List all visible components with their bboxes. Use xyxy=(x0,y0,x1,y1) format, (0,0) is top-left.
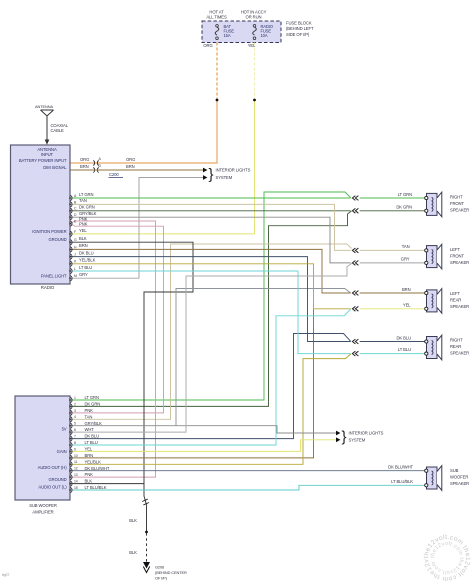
svg-text:DK BLU/WHT: DK BLU/WHT xyxy=(85,466,110,471)
svg-text:14: 14 xyxy=(74,480,78,484)
wire YEL/BLK: radio pin K down to LR- connector, on to left rear speaker - xyxy=(70,264,351,309)
wire YEL/BLK: amp pin 11 riser to RR- connector xyxy=(70,354,351,464)
svg-text:RIGHT: RIGHT xyxy=(450,338,463,343)
right rear speaker xyxy=(427,337,438,359)
junction dot on BLK at G206 drop xyxy=(145,531,148,534)
svg-text:LT BLU: LT BLU xyxy=(79,265,92,270)
radio pin E xyxy=(70,221,72,226)
wire LT BLU: amp pin 8 riser to LR- connector xyxy=(70,309,351,445)
connector LR+ xyxy=(352,290,360,295)
svg-text:YEL/BLK: YEL/BLK xyxy=(85,459,102,464)
amp pin 4 TAN xyxy=(70,417,72,422)
svg-text:WOOFER: WOOFER xyxy=(450,475,468,480)
wire TAN: amp pin 4 riser to LF+ connector, on to left front speaker + xyxy=(70,244,353,419)
sub woofer speaker xyxy=(427,467,438,489)
wire GRY: radio PANEL LIGHT (pin M) up to interior lights system xyxy=(70,178,203,279)
svg-text:3: 3 xyxy=(74,409,76,413)
wire LT BLU: radio pin L down to RR- connector, on to right rear speaker - xyxy=(70,271,351,354)
svg-text:15: 15 xyxy=(74,486,78,490)
svg-text:AUDIO OUT (L): AUDIO OUT (L) xyxy=(38,485,67,490)
svg-text:4: 4 xyxy=(74,415,76,419)
svg-text:INPUT: INPUT xyxy=(41,152,54,157)
svg-text:SPEAKER: SPEAKER xyxy=(450,304,469,309)
svg-text:REAR: REAR xyxy=(450,344,461,349)
svg-text:12: 12 xyxy=(74,467,78,471)
svg-text:TAN: TAN xyxy=(402,244,410,249)
svg-text:BRN: BRN xyxy=(126,164,135,169)
svg-text:DK BLU: DK BLU xyxy=(396,335,411,340)
svg-text:SPEAKER: SPEAKER xyxy=(450,481,469,486)
amp pin 3 PNK xyxy=(70,410,72,415)
svg-text:G206: G206 xyxy=(155,565,164,570)
wire BRN: radio DIM SIGNAL to interior lights system xyxy=(70,169,203,171)
svg-text:13: 13 xyxy=(74,473,78,477)
svg-text:ANTENNA: ANTENNA xyxy=(35,104,53,109)
svg-text:ORG: ORG xyxy=(203,43,212,48)
svg-text:TAN: TAN xyxy=(79,198,87,203)
svg-text:YEL: YEL xyxy=(85,447,93,452)
connector RR+ xyxy=(352,339,360,344)
svg-text:6: 6 xyxy=(74,428,76,432)
amp pin 11 YEL/BLK xyxy=(70,462,72,467)
wire BRN: amp pin 10 to LR- joint xyxy=(70,309,314,458)
radio pin F xyxy=(70,231,72,236)
wire TAN: radio pin B down to LF+ connector xyxy=(70,204,351,250)
svg-text:1: 1 xyxy=(74,396,76,400)
wire BLK: radio pin G to ground G206 xyxy=(70,242,193,531)
svg-text:REAR: REAR xyxy=(450,298,461,303)
svg-text:fig07: fig07 xyxy=(2,573,9,577)
fuse block (dashed box) xyxy=(202,21,281,43)
junction on ORG wire xyxy=(216,99,219,102)
svg-text:DK BLU/WHT: DK BLU/WHT xyxy=(388,465,413,470)
svg-text:BATTERY POWER INPUT: BATTERY POWER INPUT xyxy=(19,158,67,163)
svg-text:DK BLU: DK BLU xyxy=(85,434,100,439)
svg-text:INTERIOR LIGHTS: INTERIOR LIGHTS xyxy=(216,168,251,173)
svg-text:DK BLU: DK BLU xyxy=(79,250,94,255)
amp pin 10 BRN xyxy=(70,455,72,460)
svg-text:11: 11 xyxy=(74,460,78,464)
svg-text:SIDE OF I/P): SIDE OF I/P) xyxy=(286,32,310,37)
connector LF+ xyxy=(352,248,360,253)
svg-text:}: } xyxy=(209,166,214,183)
radio pin L xyxy=(70,268,72,273)
svg-text:BRN: BRN xyxy=(85,453,94,458)
svg-text:YEL: YEL xyxy=(79,228,87,233)
wire LT GRN branch: amp pin 1 riser to RF+ connector xyxy=(70,192,351,400)
svg-text:PNK: PNK xyxy=(79,221,88,226)
amp pin 6 WHT xyxy=(70,430,72,435)
svg-text:5: 5 xyxy=(74,422,76,426)
svg-text:DK GRN: DK GRN xyxy=(79,205,95,210)
svg-text:RIGHT: RIGHT xyxy=(450,195,463,200)
wire GRY/BLK: amp pin 5 to interior lights system xyxy=(70,426,336,433)
arrows to INTERIOR LIGHTS SYSTEM (top) xyxy=(203,168,207,173)
svg-text:LT BLU/BLK: LT BLU/BLK xyxy=(391,479,413,484)
radio pin G xyxy=(70,240,72,245)
svg-text:ORG: ORG xyxy=(80,157,89,162)
svg-text:RADIO: RADIO xyxy=(41,285,55,290)
fuse RADIO FUSE 10A xyxy=(253,24,273,39)
svg-text:2: 2 xyxy=(74,402,76,406)
svg-text:OF I/P): OF I/P) xyxy=(155,576,168,581)
svg-text:SUB WOOFER: SUB WOOFER xyxy=(29,503,57,508)
svg-text:15A: 15A xyxy=(224,33,231,38)
svg-text:LT GRN: LT GRN xyxy=(79,192,93,197)
svg-text:YEL: YEL xyxy=(248,43,256,48)
junction on YEL wire xyxy=(253,99,256,102)
fuse BAT FUSE 15A xyxy=(215,24,234,39)
wire DK GRN branch: amp pin 2 riser to RF- connector xyxy=(70,211,352,406)
radio pin J xyxy=(70,254,72,259)
svg-text:LEFT: LEFT xyxy=(450,247,460,252)
svg-text:TAN: TAN xyxy=(85,414,93,419)
radio pin C xyxy=(70,208,72,213)
svg-text:M: M xyxy=(74,274,77,278)
svg-text:ALL TIMES: ALL TIMES xyxy=(206,15,227,20)
wire BRN: radio pin H down to LR+ connector, on to left rear speaker + xyxy=(70,249,351,293)
wire WHT: amp pin 6 riser to LF- connector xyxy=(70,263,352,432)
svg-text:WHT: WHT xyxy=(85,427,95,432)
svg-text:INTERIOR LIGHTS: INTERIOR LIGHTS xyxy=(349,431,384,436)
svg-text:LT BLU: LT BLU xyxy=(85,440,98,445)
svg-text:YEL/BLK: YEL/BLK xyxy=(79,258,96,263)
connector RF+ xyxy=(352,195,360,200)
svg-text:BLK: BLK xyxy=(85,479,93,484)
svg-text:(BEHIND CENTER: (BEHIND CENTER xyxy=(155,570,187,575)
svg-text:9: 9 xyxy=(74,447,76,451)
svg-text:GAIN: GAIN xyxy=(57,449,67,454)
svg-text:10A: 10A xyxy=(261,33,268,38)
svg-text:LT GRN: LT GRN xyxy=(85,395,99,400)
svg-text:OR RUN: OR RUN xyxy=(246,15,262,20)
svg-text:LEFT: LEFT xyxy=(450,291,460,296)
svg-text:FRONT: FRONT xyxy=(450,201,464,206)
svg-text:5V: 5V xyxy=(62,426,67,431)
connector LR- xyxy=(352,306,360,311)
amp pin 5 GRY/BLK xyxy=(70,423,72,428)
svg-text:LT GRN: LT GRN xyxy=(398,192,412,197)
svg-text:SYSTEM: SYSTEM xyxy=(216,175,233,180)
wire BLK dashed drop to G206 xyxy=(146,533,148,562)
right front speaker xyxy=(427,193,438,215)
wire LT GRN: radio pin A to right front speaker + xyxy=(70,197,351,199)
svg-text:C200: C200 xyxy=(109,172,119,177)
amp pin 8 LT BLU xyxy=(70,442,72,447)
svg-text:}: } xyxy=(342,429,347,446)
radio pin B xyxy=(70,202,72,207)
radio pin M xyxy=(70,276,72,281)
svg-text:ORG: ORG xyxy=(126,157,135,162)
wire BLK: amp pin 14 to ground drop xyxy=(70,483,144,485)
svg-text:7: 7 xyxy=(74,435,76,439)
svg-text:(BEHIND LEFT: (BEHIND LEFT xyxy=(286,26,314,31)
svg-text:GRY/BLK: GRY/BLK xyxy=(85,421,103,426)
radio pin H xyxy=(70,247,72,252)
wire GRY/BLK: radio pin D down to LF- connector xyxy=(70,217,351,263)
wire PNK: radio pin E lower branch to amp pin 3 xyxy=(70,224,164,413)
wire GRY: left front speaker - feed after connector xyxy=(357,262,425,264)
connector LF- xyxy=(352,260,360,265)
wire DK GRN: radio pin C to right front speaker - xyxy=(70,210,351,212)
svg-text:DK GRN: DK GRN xyxy=(85,402,101,407)
amp pin 14 BLK xyxy=(70,481,72,486)
svg-text:GRY: GRY xyxy=(401,257,410,262)
radio pin A xyxy=(70,195,72,200)
sub woofer amplifier box xyxy=(15,396,70,500)
svg-text:BLK: BLK xyxy=(79,236,87,241)
svg-text:BLK: BLK xyxy=(129,518,137,523)
svg-text:GROUND: GROUND xyxy=(48,237,66,242)
svg-text:SPEAKER: SPEAKER xyxy=(450,208,469,213)
svg-text:BRN: BRN xyxy=(80,164,89,169)
svg-text:SYSTEM: SYSTEM xyxy=(349,437,366,442)
svg-text:PANEL LIGHT: PANEL LIGHT xyxy=(41,273,67,278)
amp pin 12 DK BLU/WHT xyxy=(70,468,72,473)
left front speaker xyxy=(427,246,438,268)
svg-text:YEL: YEL xyxy=(403,303,411,308)
wire DK BLU/WHT: amp pin 12 to sub woofer speaker + xyxy=(70,470,425,472)
svg-text:DK GRN: DK GRN xyxy=(396,205,412,210)
connector on BLK wire xyxy=(142,499,149,505)
svg-text:8: 8 xyxy=(74,441,76,445)
svg-text:L: L xyxy=(74,267,76,271)
amp pin 9 YEL xyxy=(70,449,72,454)
amp pin 15 LT BLU/BLK xyxy=(70,487,72,492)
svg-text:AMPLIFIER: AMPLIFIER xyxy=(32,510,53,515)
amp pin 2 DK GRN xyxy=(70,404,72,409)
svg-text:10: 10 xyxy=(74,454,78,458)
svg-text:IGNITION POWER: IGNITION POWER xyxy=(32,229,66,234)
svg-text:GRY/BLK: GRY/BLK xyxy=(79,211,97,216)
svg-text:CABLE: CABLE xyxy=(51,128,65,133)
wire LT BLU/BLK: amp pin 15 to sub woofer speaker - xyxy=(70,485,425,490)
svg-text:ANTENNA: ANTENNA xyxy=(37,147,57,152)
svg-text:PNK: PNK xyxy=(85,472,94,477)
amp pin 13 PNK xyxy=(70,475,72,480)
connector C200 pin A xyxy=(93,160,98,165)
radio pin K xyxy=(70,261,72,266)
svg-text:FUSE BLOCK: FUSE BLOCK xyxy=(286,21,312,26)
radio pin D xyxy=(70,215,72,220)
svg-text:SPEAKER: SPEAKER xyxy=(450,351,469,356)
left rear speaker xyxy=(427,290,438,312)
svg-text:BLK: BLK xyxy=(129,550,137,555)
svg-text:GRY: GRY xyxy=(79,272,88,277)
connector RR- xyxy=(352,351,360,356)
svg-text:GROUND: GROUND xyxy=(48,477,66,482)
amp pin 1 LT GRN xyxy=(70,397,72,402)
svg-text:AUDIO OUT (H): AUDIO OUT (H) xyxy=(38,465,68,470)
radio box xyxy=(11,145,71,284)
svg-text:BRN: BRN xyxy=(79,243,88,248)
wire YEL: RADIO fuse to radio IGNITION POWER (pin F) xyxy=(254,43,256,101)
amp pin 7 DK BLU xyxy=(70,436,72,441)
svg-text:BRN: BRN xyxy=(402,287,411,292)
wire GRY riser to LR+ connector xyxy=(176,289,351,426)
svg-text:FRONT: FRONT xyxy=(450,253,464,258)
svg-text:SUB: SUB xyxy=(450,468,459,473)
antenna symbol xyxy=(41,110,54,141)
svg-text:DIM SIGNAL: DIM SIGNAL xyxy=(43,165,67,170)
wire ORG: BAT fuse to radio BATTERY POWER INPUT xyxy=(216,43,218,101)
ground G206 symbol xyxy=(143,562,150,569)
svg-text:LT BLU/BLK: LT BLU/BLK xyxy=(85,485,107,490)
svg-text:F: F xyxy=(74,230,76,234)
wire DK BLU: amp pin 7 riser to RR+ connector xyxy=(70,334,351,439)
svg-text:SPEAKER: SPEAKER xyxy=(450,260,469,265)
wire YEL: amp pin 9 to interior lights system xyxy=(70,440,336,452)
wire DK BLU: radio pin J down to RR+ connector, on to right rear speaker + xyxy=(70,257,351,342)
svg-text:PNK: PNK xyxy=(85,408,94,413)
svg-text:LT BLU: LT BLU xyxy=(398,347,411,352)
connector RF- xyxy=(352,208,360,213)
wire PNK: radio pin E upper branch to amp pin 13 xyxy=(70,221,156,477)
connector C200 pin D xyxy=(93,167,98,172)
arrows to INTERIOR LIGHTS SYSTEM (bottom) xyxy=(336,431,340,436)
